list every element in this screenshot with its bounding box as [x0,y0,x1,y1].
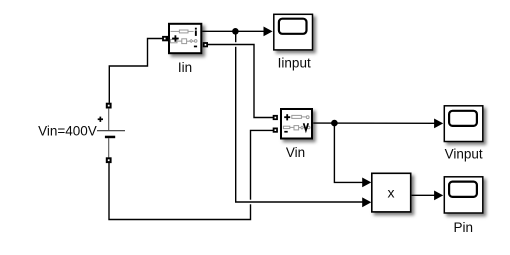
wire Iin - to Vin + port [208,45,273,118]
scope Iinput screen [279,19,307,34]
arrowhead product lower input [362,197,371,207]
svg-text:Pin: Pin [454,220,474,235]
wire Iin i output to Iinput scope [202,30,264,32]
label Pin [454,220,474,235]
wire battery + up and over to Iin + port [109,39,162,103]
wire v-signal branch down to product upper input [334,123,362,182]
Vin block icon [283,114,310,132]
product block x [372,173,411,212]
wire Vin v output to Vinput scope [313,122,434,124]
battery - terminal port [106,157,112,163]
battery + terminal port [106,103,112,109]
arrowhead Pin scope input [434,191,443,201]
wire product output to Pin scope [412,194,435,196]
wire battery negative return: battery- down, right, up into Vin - port [109,130,273,219]
label Iinput [278,55,311,70]
arrowhead Iinput scope input [264,27,273,37]
label Vin [286,145,305,160]
scope Vinput screen [449,111,477,126]
scope block Pin [444,177,483,213]
scope block Vinput [444,106,483,142]
label Vin=400V [38,124,97,139]
port Vin + [273,115,278,120]
svg-text:Vin: Vin [286,145,305,160]
scope block Iinput [274,14,313,50]
junction node on v-signal [331,120,338,127]
voltage measurement block Vin [281,109,312,139]
label Vinput [445,147,483,162]
arrowhead product upper input [362,178,371,188]
port Iin + [162,36,168,41]
wire crossover gap at (235.7,44.5) [231,42,241,47]
wire crossover gap at (250.5,202) [246,200,256,205]
svg-text:Vinput: Vinput [445,147,483,162]
label Iin [178,60,192,75]
product block x glyph [388,185,395,201]
svg-text:Iin: Iin [178,60,192,75]
wire Iin i-signal branch: junction down then right to product lower input [236,31,363,202]
svg-text:Iinput: Iinput [278,55,311,70]
svg-text:Vin=400V: Vin=400V [38,124,97,139]
junction node on i-signal [232,28,239,35]
port Vin - [273,128,278,133]
port Iin - [203,42,208,47]
svg-text:x: x [388,185,395,201]
arrowhead Vinput scope input [434,119,443,129]
scope Pin screen [449,182,477,197]
dc voltage source battery symbol [97,109,125,158]
Iin block icon [170,28,197,48]
current measurement block Iin [169,24,201,53]
